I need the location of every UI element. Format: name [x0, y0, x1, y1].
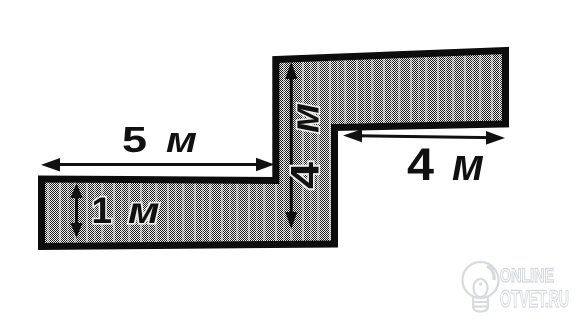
svg-text:м: м: [452, 139, 484, 190]
svg-text:м: м: [284, 103, 328, 133]
svg-text:ONLINE: ONLINE: [500, 265, 554, 287]
svg-text:OTVET.RU: OTVET.RU: [500, 286, 569, 313]
svg-text:м: м: [128, 190, 160, 231]
svg-text:м: м: [166, 119, 197, 160]
svg-text:4: 4: [284, 161, 328, 189]
svg-text:5: 5: [122, 119, 147, 160]
svg-text:1: 1: [92, 190, 113, 231]
svg-text:4: 4: [407, 139, 434, 190]
